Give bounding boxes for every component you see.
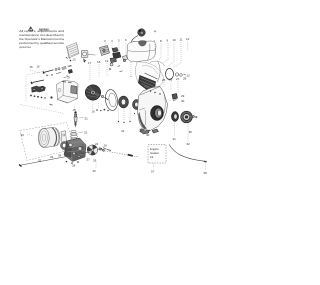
fan spoked wheel xyxy=(87,145,98,155)
top numbers row xyxy=(154,37,190,43)
svg-text:13: 13 xyxy=(73,58,77,62)
svg-text:18: 18 xyxy=(97,60,101,64)
flywheel lower dashes xyxy=(75,102,99,111)
note box leader xyxy=(153,164,155,169)
svg-text:9: 9 xyxy=(167,39,169,43)
clutch spring part xyxy=(172,94,178,101)
svg-text:38: 38 xyxy=(189,130,193,134)
svg-text:31: 31 xyxy=(173,137,177,141)
starter pawl cluster xyxy=(32,86,46,92)
warning triangle icon xyxy=(28,26,33,31)
fuel tank xyxy=(127,41,156,62)
washer ring A xyxy=(119,96,129,108)
bracket numbers xyxy=(73,58,77,62)
starter pawl bolt xyxy=(31,80,44,84)
throttle cable xyxy=(169,145,205,162)
svg-text:8: 8 xyxy=(160,39,162,43)
svg-text:Kit: Kit xyxy=(150,155,153,159)
bearing dashed leader xyxy=(175,123,189,142)
crankcase housing xyxy=(138,87,168,131)
svg-text:26: 26 xyxy=(104,144,108,148)
warning body text xyxy=(19,29,64,49)
svg-text:40: 40 xyxy=(146,133,150,137)
pulley small parts below xyxy=(96,109,109,112)
carb tick xyxy=(118,66,123,72)
svg-text:32: 32 xyxy=(187,142,191,146)
carburetor base / pump cluster xyxy=(110,48,121,67)
svg-text:4: 4 xyxy=(111,39,113,43)
carb leader dashes xyxy=(105,43,132,78)
main bearing xyxy=(171,112,178,122)
shroud intake grill (dark hatch) xyxy=(138,73,158,92)
cap retainer leash xyxy=(130,36,138,45)
long mounting bolt xyxy=(43,70,54,74)
lower hardware row marks xyxy=(46,74,52,76)
choke knob blob xyxy=(64,69,73,78)
svg-text:21: 21 xyxy=(85,117,89,121)
svg-text:3: 3 xyxy=(104,39,106,43)
svg-text:39: 39 xyxy=(139,129,143,133)
rod end fitting xyxy=(19,164,22,166)
svg-text:25: 25 xyxy=(162,78,166,82)
crankcase bearing boss xyxy=(151,106,164,121)
filter screw dots xyxy=(70,60,86,63)
svg-text:17: 17 xyxy=(88,61,92,65)
washer ring B xyxy=(133,100,141,110)
cylinder head cluster xyxy=(64,138,86,162)
svg-text:58: 58 xyxy=(204,171,208,175)
wire clevis ticks xyxy=(101,148,112,151)
ignition module block xyxy=(57,81,79,104)
svg-text:27: 27 xyxy=(87,158,91,162)
svg-text:29: 29 xyxy=(181,94,185,98)
small speck near numbers xyxy=(66,57,68,58)
svg-text:30: 30 xyxy=(181,99,185,103)
crankcase lower-left shade xyxy=(139,112,148,129)
throttle wire xyxy=(97,150,139,158)
chain dashed diagonal xyxy=(30,70,52,76)
svg-text:32: 32 xyxy=(38,159,42,163)
pawl small washers row xyxy=(30,95,46,99)
spark plug xyxy=(74,112,77,128)
flywheel washer and bolt xyxy=(101,95,108,100)
svg-text:15: 15 xyxy=(30,65,34,69)
washer numbers xyxy=(118,113,135,123)
intake ring seal xyxy=(61,142,69,150)
carb small dot xyxy=(109,68,111,70)
fuel cap xyxy=(138,29,146,37)
svg-text:11: 11 xyxy=(180,38,183,42)
clutch drum xyxy=(181,111,193,123)
engine shroud housing xyxy=(135,61,164,90)
svg-text:41: 41 xyxy=(121,129,125,133)
flywheel lower numbers xyxy=(73,108,96,114)
crankcase feet xyxy=(140,129,159,135)
spark plug leader xyxy=(79,116,84,119)
svg-text:5: 5 xyxy=(118,39,120,43)
muffler gasket plate xyxy=(61,131,67,150)
cluster numbers xyxy=(72,144,107,168)
svg-text:33: 33 xyxy=(50,155,54,159)
svg-text:27: 27 xyxy=(176,77,180,81)
primer bulb part xyxy=(123,56,128,62)
small numbers below rod xyxy=(38,154,62,163)
washer stack leader xyxy=(78,132,83,133)
leash hook xyxy=(133,41,137,45)
muffler group dashed box xyxy=(20,123,76,161)
svg-text:28: 28 xyxy=(183,77,187,81)
svg-text:30: 30 xyxy=(93,169,97,173)
clip parts above block xyxy=(56,66,72,74)
bearing numbers below xyxy=(173,137,191,146)
pawl dashed guides xyxy=(20,71,64,114)
svg-text:57: 57 xyxy=(151,170,155,174)
tank filler neck xyxy=(139,41,147,46)
dashed note box xyxy=(148,145,166,164)
small washers pair xyxy=(175,73,186,76)
svg-text:16: 16 xyxy=(37,65,41,69)
svg-text:24: 24 xyxy=(95,142,99,146)
small dark dot xyxy=(50,96,52,98)
head studs xyxy=(66,161,79,164)
chain numbers xyxy=(30,65,41,70)
driveshaft rod xyxy=(19,152,93,166)
clutch spring numbers xyxy=(181,94,185,103)
small fittings right of fan xyxy=(99,148,105,152)
svg-text:6: 6 xyxy=(125,38,127,42)
svg-text:12: 12 xyxy=(187,74,191,78)
muffler group number dash xyxy=(27,135,33,136)
drum small hardware xyxy=(192,115,197,117)
carb numbers row xyxy=(104,38,127,43)
svg-text:12: 12 xyxy=(186,37,190,41)
svg-text:16: 16 xyxy=(92,110,96,114)
fan number dashes xyxy=(95,163,97,169)
shroud screw dots xyxy=(150,90,161,94)
top numbers leader dashes xyxy=(152,42,188,69)
throttle wire end xyxy=(128,154,133,157)
svg-text:10: 10 xyxy=(173,38,177,42)
numbers above flywheel xyxy=(88,59,109,65)
svg-text:26: 26 xyxy=(169,78,173,82)
seal O-ring xyxy=(166,69,174,80)
cable end ferrule xyxy=(204,161,207,163)
svg-text:34: 34 xyxy=(58,154,62,158)
cable dashed leader xyxy=(205,164,207,171)
crankcase numbers row xyxy=(162,77,187,83)
svg-text:22: 22 xyxy=(84,131,88,135)
carburetor body xyxy=(100,46,110,56)
washer leader lines xyxy=(119,109,131,122)
plus speck xyxy=(154,30,156,32)
flywheel xyxy=(85,85,101,101)
bolt washers and spring xyxy=(55,67,67,71)
svg-text:19: 19 xyxy=(105,59,109,63)
svg-text:29: 29 xyxy=(93,159,97,163)
svg-text:28: 28 xyxy=(72,164,76,168)
flywheel leader dashes xyxy=(90,63,107,80)
crankcase bottom numbers xyxy=(121,129,150,138)
air filter cover plate xyxy=(67,43,80,59)
muffler body xyxy=(39,128,61,148)
air filter element xyxy=(81,50,95,57)
starter pulley ellipse xyxy=(104,89,119,111)
svg-text:36: 36 xyxy=(21,133,25,137)
crankcase leader dashes xyxy=(164,81,178,92)
svg-text:personnel.: personnel. xyxy=(19,45,31,49)
washer stack xyxy=(70,130,77,142)
